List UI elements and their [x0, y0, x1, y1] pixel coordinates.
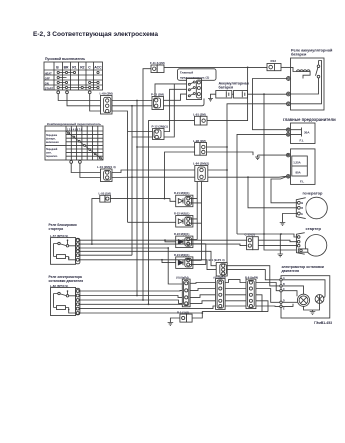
wire SW2-t1 to L-04 pin1 [71, 163, 100, 172]
wire L-05 to R-21 [110, 199, 175, 202]
node trunk junctions [263, 233, 282, 235]
svg-text:свет,: свет, [46, 153, 52, 155]
relay K1 battery relay box [291, 58, 325, 110]
node V3 end junction [136, 295, 138, 297]
svg-text:С-13 (2): С-13 (2) [245, 233, 255, 237]
connector L-05 [100, 195, 111, 202]
wire K3 p5 to strip2 [80, 306, 216, 309]
diode R-24 [176, 257, 193, 269]
node V4 end junction [142, 299, 144, 301]
switch SW1 terminals [57, 91, 91, 94]
wire strip1 to strip2 row4 [190, 301, 215, 304]
motor M2 box [281, 276, 330, 318]
connector X1 strip1 [182, 279, 190, 307]
wire K3 p3 to strip1 [80, 300, 182, 303]
node K2 p2 riser junction [91, 243, 93, 245]
wire strip3 row4 to R-1 bus [256, 301, 268, 312]
battery BAT1 [216, 91, 248, 99]
wire trunk V3 [136, 101, 138, 296]
wire P-12 pin1 right to fuse2 [164, 89, 191, 131]
wire motor internal C [282, 291, 297, 297]
wire B-1 out2 to motor pin1 [227, 270, 280, 280]
switch SW2 combination switch table [45, 126, 103, 160]
node V2 branch [131, 176, 133, 178]
wire strip1 to strip2 row3 [190, 295, 215, 298]
wire motor internal E [282, 304, 293, 307]
node V3 top [136, 100, 138, 102]
svg-text:Е-2, 3 Соответствующая электро: Е-2, 3 Соответствующая электросхема [33, 31, 158, 38]
ground motor internal [310, 312, 316, 315]
diode R-23 [176, 236, 193, 248]
svg-text:ГЭмВ1-453: ГЭмВ1-453 [314, 321, 332, 325]
wire L-98 pin2 right to ground wire [207, 152, 254, 155]
svg-text:Р-13 (2М): Р-13 (2М) [151, 93, 164, 97]
connector B-1 [216, 263, 227, 277]
wire diode bus 2 [190, 182, 202, 261]
wire diode bus 1 [190, 182, 198, 240]
wire L-98 pin1 right to trunk V7 [207, 146, 228, 148]
terminal FL2-1 [286, 153, 290, 157]
wire K3 p4 to strip1 edge [80, 303, 182, 305]
connector L-84 [195, 166, 208, 182]
svg-text:30А: 30А [304, 131, 310, 135]
wire relay K1 internal t2 [291, 78, 319, 94]
wire L-91 right riser to R12 feed [207, 67, 248, 120]
node R-24 feed junction [161, 259, 163, 261]
svg-text:батарея: батарея [219, 86, 234, 90]
wire R-1 to ground [170, 318, 180, 323]
svg-text:генератор: генератор [303, 190, 324, 195]
svg-text:Передние: Передние [46, 135, 58, 137]
node V3 L-98 junction [136, 146, 138, 148]
svg-text:Пусковой выключатель: Пусковой выключатель [45, 57, 85, 61]
wire motor internal B [282, 286, 303, 294]
wire relay K1 internal t3 [291, 61, 322, 104]
sensor symbol in motor box [315, 295, 324, 304]
terminal K1-1 [287, 77, 291, 81]
wire SW2-t2 to L-04 pin2 [80, 163, 101, 177]
wire L-84 right to trunk V7 [208, 169, 227, 171]
wire SW1-C to L-09 pin3 [90, 94, 101, 111]
relay K1 coil [291, 67, 311, 78]
switch SW2 terminals [70, 161, 82, 164]
wire P-13 pin2 to fusebox bottom [164, 99, 205, 106]
node V2 top [131, 105, 133, 107]
svg-text:F.L: F.L [300, 139, 304, 143]
connector C-13 [247, 237, 259, 250]
terminal FL1-1 [286, 128, 290, 132]
svg-text:F.L: F.L [300, 179, 304, 183]
connector P-13 [152, 97, 164, 110]
svg-text:Аккумуляторная: Аккумуляторная [219, 81, 249, 85]
wire diode bus 3 [190, 244, 206, 265]
node V7 L-98 junction [226, 146, 228, 148]
fuse FL2 box [291, 149, 316, 185]
svg-text:включения: включения [46, 142, 59, 144]
wire P-12 pin1 left to trunk V1 [128, 131, 153, 133]
wire strip3 row3 to R-1 bus [256, 295, 262, 312]
wire R12 to relay coil [281, 66, 291, 68]
wire strip3 to motor pin E [256, 305, 280, 307]
wire C-13 pin2 to starter R [258, 245, 297, 247]
diode R-22 [176, 216, 193, 228]
wire R-23 feed from relay wire [165, 240, 176, 242]
node R-wire junction [247, 176, 249, 178]
fuse elements inside F1 [188, 81, 195, 97]
wire L-98 pin1 left to trunk V3 [137, 146, 195, 148]
wire battery link [232, 93, 234, 95]
relay K3 stop motor relay label [49, 275, 84, 288]
wire L-09 pin1 to P-13 pin1 [112, 100, 152, 102]
wire motor internal A [282, 280, 325, 297]
wire relay K1 t3 trunk V7 [227, 104, 287, 263]
wire P-13 pin1 to fuse3 [164, 94, 191, 100]
motor M2 symbol [297, 294, 309, 306]
wire K2 p6 to B-1 pin2 [80, 260, 216, 270]
wire relay K1 t1 to fuse FL1 [253, 79, 287, 130]
wire battery negative to ground [211, 94, 216, 98]
svg-text:L-84 (2М)(1): L-84 (2М)(1) [193, 161, 209, 165]
wire K2 p3 to strip1 [80, 248, 182, 284]
wire SW1-BR to L-09 pin2 [67, 94, 101, 106]
connector L-98 [195, 143, 207, 156]
relay K1 battery relay label [291, 48, 333, 56]
connector F-11 [151, 65, 164, 73]
wire K2 p5 to trunk V2 end [80, 254, 132, 256]
relay K3 contact [54, 290, 76, 307]
relay K3 coil [54, 306, 76, 313]
svg-text:остановки двигателя: остановки двигателя [49, 279, 84, 283]
wire L-98 pin2 left to L-05 wire [165, 152, 195, 199]
wire K3 p6 to R-1 riser [80, 312, 202, 314]
node riser junction [247, 67, 249, 69]
svg-text:R1: R1 [72, 66, 76, 70]
wire long feed to FL2 t2 via L-84 [132, 175, 286, 178]
wire L-91 left trunk V5 [149, 121, 195, 305]
wire strip2 to strip3 row3 [225, 294, 246, 296]
svg-text:L-91 (2М): L-91 (2М) [193, 112, 206, 116]
wire strip1 to strip2 row1 [190, 282, 215, 285]
wire P-12 pin2 left to trunk V2 [132, 136, 153, 138]
svg-text:ACC: ACC [94, 66, 102, 70]
fuse FL1 box [291, 123, 316, 144]
wire motor internal D [282, 301, 297, 303]
wire F-11 left to trunk V4 [143, 69, 151, 300]
svg-text:Комбинированный переключатель: Комбинированный переключатель [47, 122, 101, 126]
connector X3 strip3 [246, 279, 256, 309]
wire L-84 pin1 left to L-04 [112, 170, 195, 173]
wire K2 p4 to B-1 pin1 [80, 251, 216, 265]
terminal FL2-2 [286, 175, 290, 179]
wire K2 p2 to C-13 pin2 [80, 244, 247, 246]
wire FL1 t2 down trunk [237, 134, 286, 234]
wire L-09 pin2 to P-13 pin2 [112, 105, 152, 107]
main fuse callout label [178, 69, 217, 81]
wire generator B via loop to FL2 [271, 177, 298, 203]
wire P-12 pin2 right to fuse1 [164, 84, 191, 137]
wire generator R to trunk [248, 177, 298, 208]
wire SW1-B to L-09 pin1 [58, 94, 100, 101]
svg-text:переключ.: переключ. [46, 156, 58, 158]
ground generator [280, 223, 286, 226]
wire L-09 pin3 down trunk V1 [112, 111, 128, 222]
svg-text:Реле блокировки: Реле блокировки [49, 223, 77, 227]
svg-text:BR: BR [64, 66, 69, 70]
svg-text:Реле электромотора: Реле электромотора [49, 275, 83, 279]
wire strip2 to strip3 row1 staircase [225, 280, 246, 283]
ground R-1 [168, 323, 174, 326]
node V7 L-84 junction [226, 169, 228, 171]
switch SW1 starter switch contact table [44, 62, 103, 90]
terminal K1-2 [287, 92, 291, 96]
wire K3 p1 to strip1 [80, 289, 182, 292]
relay K2 starter lock relay label [49, 223, 77, 238]
svg-text:F-11 (L)(М): F-11 (L)(М) [150, 61, 165, 65]
wire C-13 pin1 to starter S [258, 240, 297, 242]
wire K2 p1 to C-13 pin1 [80, 239, 247, 241]
wire K3 p2 to strip1 [80, 296, 182, 298]
connector L-91 [195, 116, 208, 125]
wire B-1 out1 to motor pin2 [227, 266, 280, 286]
wire battery trunk to starter B [237, 234, 297, 237]
relay K1 contact [316, 61, 320, 78]
wire L-04 pin2 right to long feed [112, 176, 132, 178]
wire R-24 feed from relay wire [162, 260, 176, 263]
svg-text:главные предохранители: главные предохранители [283, 117, 336, 122]
diode R-21 [176, 195, 193, 207]
generator G1 [296, 197, 327, 219]
svg-text:R2: R2 [80, 66, 84, 70]
svg-text:L-09 (3М): L-09 (3М) [100, 92, 113, 96]
svg-text:1.25А: 1.25А [293, 160, 300, 164]
fuse R12 [267, 64, 281, 71]
node battery junction [263, 93, 265, 95]
svg-text:L-04 (2М)(1 4): L-04 (2М)(1 4) [97, 165, 116, 169]
wire strip3 to motor pin D [256, 289, 280, 303]
svg-text:1 2 3 4 5 6 7 8: 1 2 3 4 5 6 7 8 [67, 128, 83, 131]
starter M1 [296, 233, 326, 256]
connector L-09 [101, 96, 113, 115]
wire battery junction down trunk V6 [264, 94, 298, 250]
svg-text:80А: 80А [296, 171, 301, 175]
node K3 p6 junction [201, 312, 203, 314]
svg-text:Р-12 (2М)(1): Р-12 (2М)(1) [152, 125, 168, 129]
battery label [219, 81, 249, 89]
wire generator E to ground [283, 214, 298, 223]
wire L-05 feed riser from relay K2 p2 [92, 199, 100, 245]
wire F-11 right to fuse R12 [164, 66, 267, 68]
svg-text:стартера: стартера [49, 227, 64, 231]
wire P-13 top riser to fuse1 feed [155, 84, 174, 97]
ground battery [208, 99, 213, 102]
connector R-1 [180, 314, 192, 322]
connector L-04 [101, 169, 113, 182]
ground fuse FL2 [255, 155, 260, 160]
wire trunk V1 to R-22 [128, 221, 176, 223]
wire strip3 to motor pin C [256, 283, 280, 291]
fuse box F1 main fuse [187, 79, 202, 100]
wire battery positive to relay terminal [248, 93, 287, 95]
wire strip2 to strip3 row5 [225, 305, 246, 307]
wire strip2 to strip3 row4 [225, 300, 246, 302]
svg-text:электромотор остановки: электромотор остановки [282, 265, 324, 269]
wire R-1 right riser bus [192, 312, 268, 318]
node L-05 wire junction [164, 198, 166, 200]
relay K2 box [51, 238, 80, 265]
motor M2 label [282, 265, 324, 273]
ground starter area [278, 254, 284, 257]
svg-text:Главный: Главный [180, 71, 193, 75]
svg-text:Реле аккумуляторной: Реле аккумуляторной [291, 48, 333, 52]
svg-text:стартер: стартер [306, 226, 322, 231]
node K2 p3 junction [167, 247, 169, 249]
wire strip1 to strip2 row2 [190, 289, 215, 291]
relay K2 contact [54, 239, 76, 256]
svg-text:батареи: батареи [291, 53, 307, 57]
wire FL2 t1 to ground [258, 154, 287, 156]
wire strip2 to strip3 row2 [225, 288, 246, 290]
motor M2 pins [280, 277, 285, 310]
relay K2 coil [54, 255, 76, 260]
relay K3 box [51, 288, 80, 316]
wire junction to ground [279, 234, 281, 254]
terminal K1-3 [287, 102, 291, 106]
node V5 end junction [148, 303, 150, 305]
connector X2 strip2 [216, 279, 226, 310]
node R-23 feed junction [164, 239, 166, 241]
wire motor to ground [304, 297, 326, 312]
svg-text:R12: R12 [271, 59, 277, 63]
svg-text:двигателя: двигателя [282, 269, 300, 273]
wire trunk V2 [131, 106, 133, 255]
terminal FL1-2 [286, 133, 290, 137]
connector P-12 [153, 129, 165, 140]
